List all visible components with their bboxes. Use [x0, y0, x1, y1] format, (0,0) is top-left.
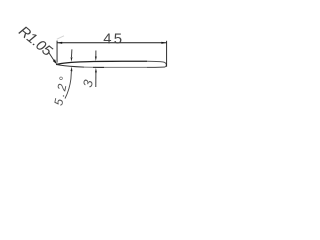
thickness arrow top (3) [95, 51, 97, 57]
blade bottom edge (gray middle) [84, 66, 147, 68]
blade top edge (gray right segment + end curve) [147, 61, 166, 67]
blade bottom edge (dark right) [147, 66, 165, 68]
angle arrow top (5.2) [71, 49, 73, 57]
tip rounding [55, 63, 58, 66]
angle arrow bottom (5.2) with leader [65, 71, 71, 99]
faint ghost mark above left arrow [57, 36, 64, 39]
blade bottom edge (dark patch under 3-dim) [93, 66, 104, 68]
svg-text:5.2°: 5.2° [51, 75, 71, 106]
extension line right [166, 41, 168, 67]
blade top edge (dark left segment) [56, 61, 147, 64]
svg-text:45: 45 [103, 32, 122, 48]
leader R1.05 [49, 52, 55, 61]
extension line left [56, 41, 58, 63]
thickness arrow bottom (3) [95, 72, 97, 87]
svg-text:3: 3 [80, 78, 96, 89]
leader arrow R1.05 [53, 59, 57, 64]
svg-text:R1.05: R1.05 [15, 23, 55, 60]
dimension line 45 [57, 42, 166, 44]
blade bottom edge (dark near tip) [56, 65, 84, 68]
dim arrow left [57, 42, 62, 44]
dim arrow right [161, 42, 166, 44]
